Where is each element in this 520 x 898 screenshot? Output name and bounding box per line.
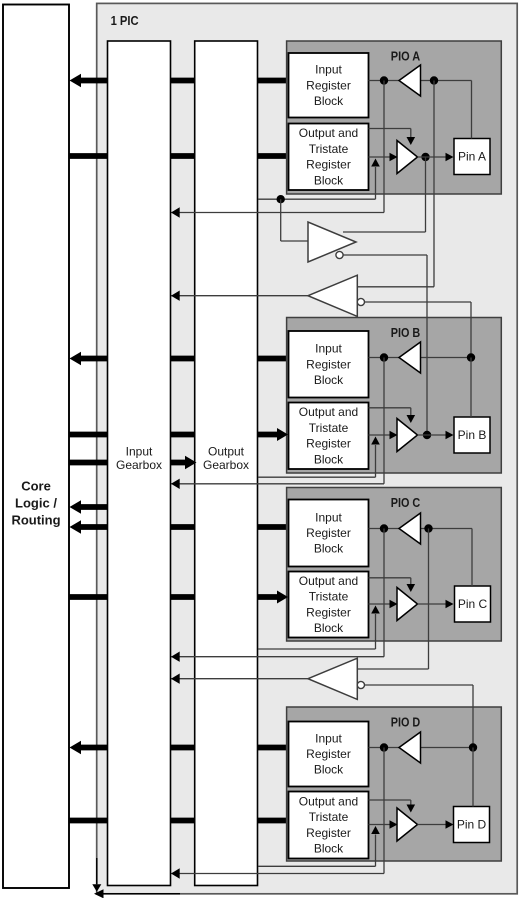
label PIO C bbox=[391, 495, 421, 510]
output and tristate register block D bbox=[289, 792, 369, 859]
wire tristate enable A bbox=[369, 129, 416, 146]
wire U2 output to input gearbox bbox=[171, 291, 308, 301]
svg-text:Register: Register bbox=[306, 357, 351, 371]
wire U3 enable to PIO D pad node bbox=[365, 685, 474, 748]
svg-text:Input: Input bbox=[315, 342, 342, 356]
wire output node A down to driver bbox=[343, 157, 426, 232]
bus gearbox-to-gearbox row bbox=[70, 460, 190, 466]
output buffer D bbox=[397, 808, 418, 841]
arrowhead gearbox-to-gearbox bbox=[185, 456, 197, 470]
wire output reg D to output buffer D bbox=[369, 820, 398, 829]
input register block D bbox=[289, 722, 369, 787]
svg-text:Core: Core bbox=[21, 479, 51, 494]
wire output gearbox to PIO A bypass bbox=[258, 198, 376, 200]
input buffer A bbox=[399, 65, 421, 96]
svg-text:Input: Input bbox=[315, 510, 342, 524]
node tristate driver tap bbox=[277, 195, 285, 203]
svg-text:Output and: Output and bbox=[299, 405, 358, 419]
bus PIO B output row (from core) bbox=[70, 432, 282, 438]
pin box Pin C bbox=[455, 586, 491, 622]
enable bubble U1 bbox=[336, 251, 343, 258]
PIO C block bbox=[287, 488, 502, 642]
svg-text:Input: Input bbox=[315, 63, 342, 77]
wire input buffer A to corner bbox=[421, 80, 472, 82]
wire output reg B to output buffer B bbox=[369, 431, 398, 440]
svg-text:Register: Register bbox=[306, 747, 351, 761]
wire U3 output to input gearbox bbox=[171, 674, 308, 684]
svg-text:Tristate: Tristate bbox=[309, 810, 349, 824]
svg-text:Gearbox: Gearbox bbox=[203, 458, 249, 472]
svg-text:PIO B: PIO B bbox=[391, 325, 421, 340]
wire pad C tap to U3 input bbox=[357, 529, 428, 670]
svg-text:Pin D: Pin D bbox=[457, 818, 487, 832]
svg-text:Register: Register bbox=[306, 605, 351, 619]
label input gearbox bbox=[116, 445, 162, 472]
svg-text:Block: Block bbox=[314, 94, 344, 108]
label output gearbox bbox=[203, 445, 249, 472]
wire input reg B to input buffer B bbox=[369, 357, 400, 359]
svg-text:Input: Input bbox=[315, 731, 342, 745]
svg-text:Block: Block bbox=[314, 842, 344, 856]
arrowhead into output reg C bbox=[277, 591, 288, 604]
bus PIO C input row (to core, arrow) bbox=[70, 520, 289, 534]
svg-text:Register: Register bbox=[306, 158, 351, 172]
arrowhead into output reg B bbox=[277, 428, 288, 441]
node input buffer A left bbox=[380, 76, 388, 84]
wire tristate enable C bbox=[369, 578, 416, 592]
svg-text:Routing: Routing bbox=[11, 513, 60, 528]
svg-text:Tristate: Tristate bbox=[309, 142, 349, 156]
svg-text:Tristate: Tristate bbox=[309, 421, 349, 435]
svg-text:PIO A: PIO A bbox=[391, 49, 421, 64]
core logic / routing block bbox=[3, 5, 69, 889]
wire input reg D to input buffer D bbox=[369, 747, 400, 749]
svg-text:Tristate: Tristate bbox=[309, 590, 349, 604]
input register block B bbox=[289, 331, 369, 398]
wire bypass up-arrow D bbox=[371, 826, 380, 866]
wire output gearbox to PIO D bypass bbox=[258, 865, 376, 867]
wire output buffer B to Pin B bbox=[418, 431, 454, 440]
output and tristate register block C bbox=[289, 572, 369, 638]
wire input buffer C to corner bbox=[421, 528, 473, 530]
wire output gearbox to PIO C bypass bbox=[258, 648, 376, 650]
bus PIO A input row (to core, arrow) bbox=[70, 74, 289, 88]
pad-to-core buffer U3 bbox=[308, 658, 357, 699]
wire tristate enable D bbox=[369, 800, 416, 813]
wire input reg C to input buffer C bbox=[369, 528, 400, 530]
input buffer D bbox=[399, 732, 421, 763]
wire input bypass A to input gearbox bbox=[171, 81, 384, 218]
enable bubble U3 bbox=[357, 681, 364, 688]
label PIO B bbox=[391, 325, 421, 340]
wire bypass up-arrow B bbox=[371, 437, 380, 478]
node pad B bbox=[467, 353, 475, 361]
PIO B block bbox=[287, 318, 502, 474]
node output A bbox=[421, 153, 429, 161]
output gearbox block bbox=[195, 41, 258, 886]
node input buffer B left bbox=[380, 353, 388, 361]
wire tristate enable B bbox=[369, 408, 416, 423]
bus PIO A output row (from core) bbox=[70, 153, 289, 159]
svg-text:Register: Register bbox=[306, 78, 351, 92]
svg-text:Output: Output bbox=[208, 445, 245, 459]
pad-to-core buffer U2 bbox=[308, 275, 357, 316]
svg-text:Output and: Output and bbox=[299, 574, 358, 588]
input buffer B bbox=[399, 342, 421, 373]
svg-text:Input: Input bbox=[126, 445, 153, 459]
svg-text:Block: Block bbox=[314, 542, 344, 556]
svg-text:Register: Register bbox=[306, 826, 351, 840]
node input buffer D left bbox=[380, 743, 388, 751]
svg-text:Block: Block bbox=[314, 452, 344, 466]
output and tristate register block B bbox=[289, 403, 369, 470]
svg-text:Pin B: Pin B bbox=[458, 428, 487, 442]
PIO D block bbox=[287, 707, 502, 861]
wire output gearbox to PIO B bypass bbox=[258, 476, 376, 478]
svg-text:Block: Block bbox=[314, 373, 344, 387]
input register block C bbox=[289, 500, 369, 567]
wire U2 enable to PIO B pad node bbox=[365, 302, 472, 358]
node pad D bbox=[469, 743, 477, 751]
output and tristate register block A bbox=[289, 124, 369, 191]
input buffer C bbox=[399, 513, 421, 544]
wire input buffer B to pad node bbox=[421, 357, 472, 359]
node input buffer C left bbox=[380, 524, 388, 532]
svg-text:Output and: Output and bbox=[299, 126, 358, 140]
label PIO A bbox=[391, 49, 421, 64]
wire output buffer D to Pin D bbox=[418, 820, 454, 829]
svg-text:Output and: Output and bbox=[299, 794, 358, 808]
wire exit to next PIC down bbox=[92, 858, 101, 892]
svg-text:Block: Block bbox=[314, 763, 344, 777]
wire tap down to driver input bbox=[281, 199, 308, 241]
wire pad A tap to U2 input bbox=[357, 81, 434, 287]
svg-text:Logic /: Logic / bbox=[15, 496, 57, 511]
wire output buffer C to Pin C bbox=[418, 600, 454, 609]
wire pad node D down to Pin D bbox=[472, 748, 474, 807]
wire input bypass D to input gearbox bbox=[171, 748, 384, 879]
wire corner down to Pin A bbox=[471, 81, 473, 139]
node pad tap C bbox=[424, 524, 432, 532]
input register block A bbox=[289, 53, 369, 118]
node input tap A bbox=[430, 76, 438, 84]
bus input gearbox to core (arrow) bbox=[70, 500, 141, 514]
svg-text:Pin A: Pin A bbox=[458, 150, 486, 164]
output buffer B bbox=[397, 419, 418, 452]
label PIO D bbox=[391, 715, 421, 730]
bus PIO B input row (to core, arrow) bbox=[70, 352, 289, 366]
bus PIO C output row (from core) bbox=[70, 594, 282, 600]
wire input buffer D to pad node bbox=[421, 747, 474, 749]
svg-text:PIO C: PIO C bbox=[391, 495, 421, 510]
wire input bypass C to input gearbox bbox=[171, 529, 384, 662]
wire exit to next PIC left bbox=[94, 889, 180, 898]
bus PIO D output row (from core) bbox=[70, 818, 289, 824]
output buffer A bbox=[397, 141, 418, 174]
svg-text:Gearbox: Gearbox bbox=[116, 458, 162, 472]
wire corner down to Pin C bbox=[471, 529, 473, 587]
pin box Pin B bbox=[454, 417, 490, 453]
output buffer C bbox=[397, 588, 418, 621]
pin box Pin D bbox=[454, 807, 490, 843]
node output B bbox=[423, 431, 431, 439]
svg-text:1 PIC: 1 PIC bbox=[111, 13, 140, 28]
wire bypass up-arrow C bbox=[371, 606, 380, 650]
wire output reg C to output buffer C bbox=[369, 600, 398, 609]
wire input bypass B to input gearbox bbox=[171, 358, 384, 490]
PIO A block bbox=[287, 41, 502, 194]
svg-text:PIO D: PIO D bbox=[391, 715, 421, 730]
wire U1 enable to PIO B output node bbox=[343, 255, 427, 435]
label 1 PIC bbox=[111, 13, 140, 28]
svg-text:Register: Register bbox=[306, 526, 351, 540]
svg-text:Block: Block bbox=[314, 173, 344, 187]
svg-text:Register: Register bbox=[306, 437, 351, 451]
bus PIO D input row (to core, arrow) bbox=[70, 741, 289, 755]
wire output buffer A to Pin A bbox=[418, 153, 454, 162]
wire input reg A to input buffer A bbox=[369, 80, 400, 82]
inter-pad driver U1 bbox=[308, 222, 356, 262]
svg-text:Pin C: Pin C bbox=[458, 597, 488, 611]
pin box Pin A bbox=[454, 139, 490, 175]
wire pad node B down to Pin B bbox=[470, 358, 472, 418]
enable bubble U2 bbox=[357, 298, 364, 305]
input gearbox block bbox=[108, 41, 171, 886]
wire output reg A to output buffer A bbox=[369, 153, 398, 162]
svg-text:Block: Block bbox=[314, 621, 344, 635]
wire bypass up-arrow A bbox=[371, 159, 380, 200]
